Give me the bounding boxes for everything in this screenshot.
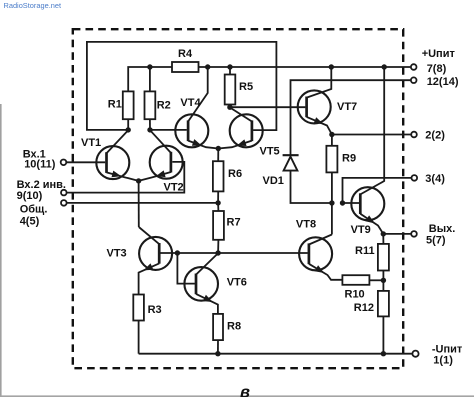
terminal 2(2) [411,132,417,138]
terminal Vkh.2 inv 9(10) [61,190,67,196]
transistor VT9 [351,187,384,220]
svg-text:VT8: VT8 [296,218,316,230]
diode VD1 [283,154,299,156]
watermark RadioStorage.net [4,1,62,10]
svg-text:+Uпит: +Uпит [422,48,456,60]
wire: R5/VT5 node to VT7 base [230,106,306,108]
transistor VT4 [175,114,208,147]
resistor R6 [217,149,219,162]
svg-text:R5: R5 [239,81,253,93]
wire: +U rail (left segment to R4) [128,67,172,91]
svg-text:R9: R9 [342,153,356,165]
svg-text:12(14): 12(14) [427,76,459,88]
svg-text:5(7): 5(7) [426,235,446,247]
wire: VT9 base from rail [343,202,360,204]
junction: VT4-VT5 emitters / R6 top [216,146,221,151]
svg-text:1(1): 1(1) [433,355,453,367]
svg-text:9(10): 9(10) [17,190,43,202]
wire: VT7 emitter to pin 2(2) [332,134,411,136]
junction: VT6 base tap [175,250,180,255]
wire: VT6 base drop from rail [177,253,195,284]
junction: R12 bottom / -U rail [381,351,386,356]
svg-text:Вых.: Вых. [429,223,456,235]
resistor R10 [342,275,369,285]
wire: bias loop from R1/R2 node around top to VT5 base [87,42,277,130]
svg-text:R3: R3 [148,304,162,316]
wire: VT4 collector to +U rail [188,67,208,122]
terminal -Upit 1(1) [412,351,418,357]
wire: pin 12(14) to VD1 cathode [291,80,411,155]
svg-text:R8: R8 [227,320,241,332]
resistor R3 [133,295,144,321]
transistor VT6 [184,267,218,301]
junction: R6/R7 / common input [215,200,220,205]
resistor R7 [217,203,219,211]
resistor R4 [172,62,199,72]
wire: VT3 base / VT6 / R7 / VT8 base rail [161,252,308,254]
svg-text:R6: R6 [228,168,242,180]
junction: R5 top / +U rail [227,64,232,69]
junction: R1 bottom / VT1 collector [126,127,131,132]
junction: pin 3 tap / VT9 base [340,200,345,205]
transistor VT1 [96,146,129,179]
terminal +Upit 7(8) [411,64,417,70]
terminal Vkh.1 10(11) [61,160,67,166]
resistor R5 [229,67,231,75]
svg-text:VT4: VT4 [180,97,201,109]
wire: VT9 collector to +U rail [360,67,384,194]
svg-text:в: в [240,384,250,397]
junction: VT7 emitter / R9 top / pin 2 [329,132,334,137]
wire: VT9 base to pin 3(4) [343,178,412,203]
wire: input 2 to VT2 base [67,162,185,193]
wire: VT1/VT2 emitters to VT3 collector [138,181,140,227]
svg-text:VD1: VD1 [263,175,284,187]
wire: -U bottom rail [139,353,413,355]
junction: R7 bottom / VT6 collector [215,250,220,255]
svg-text:2(2): 2(2) [425,130,445,142]
svg-text:VT3: VT3 [107,248,127,260]
junction: VT4 collector / +U rail [205,64,210,69]
junction: R2 bottom / VT2 collector / VT4 base [147,127,152,132]
resistor R8 [213,314,223,340]
svg-text:Общ.: Общ. [20,203,48,215]
svg-text:3(4): 3(4) [425,173,445,185]
svg-text:VT9: VT9 [351,224,371,236]
terminal 12(14) [411,77,417,83]
svg-text:VT5: VT5 [260,146,280,158]
wire: VT6 collector to R7 node [196,253,218,274]
svg-text:R10: R10 [345,288,365,300]
svg-text:10(11): 10(11) [24,158,56,170]
svg-text:VT1: VT1 [81,137,101,149]
transistor VT5 [230,114,263,147]
transistor VT3 [139,237,172,270]
transistor VT7 [298,90,331,123]
wire: common to R6/R7 node [67,202,218,204]
svg-text:VT2: VT2 [164,182,184,194]
resistor R11 [382,234,384,244]
dashed IC package boundary [73,29,403,368]
svg-text:R7: R7 [227,217,241,229]
svg-text:VT7: VT7 [337,101,357,113]
svg-text:R11: R11 [355,245,375,257]
wire: VT4 base to R2 node [150,129,187,131]
scan artifact bottom edge strip [0,395,474,397]
transistor VT8 [299,237,332,270]
junction: VT9 collector line / +U rail [382,64,387,69]
svg-text:4(5): 4(5) [20,215,40,227]
wire: input 1 to VT1 base [66,161,105,163]
svg-text:VT6: VT6 [227,277,247,289]
svg-text:R12: R12 [354,302,374,314]
terminal 3(4) [412,175,418,181]
terminal Obshch 4(5) [61,200,67,206]
wire: +U rail (R4 to pin 7(8)) [199,66,411,68]
resistor R12 [382,280,384,291]
junction: VD1 anode / R9 bottom / VT8 collector [329,200,334,205]
junction: R5 bottom / VT5 collector / VT7 base [227,105,232,110]
junction: R2 top / +U rail [147,64,152,69]
terminal Vykh 5(7) [411,231,417,237]
svg-text:7(8): 7(8) [427,63,447,75]
scan artifact left edge strip [0,104,2,397]
svg-text:R2: R2 [157,99,171,111]
resistor R2 [149,67,151,91]
resistor R9 [331,135,333,146]
junction: VT1-VT2 emitters / VT3 collector [136,178,141,183]
wire: R9 bottom / VT8 collector column [331,172,333,234]
wire: VT7 collector to +U rail [307,67,332,98]
junction: VT7 collector / +U rail [329,64,334,69]
junction: R8 bottom / -U rail [215,351,220,356]
junction: VT9 emitter / R11 top / output [381,231,386,236]
junction: R11/R10/R12 node [381,278,386,283]
svg-text:R1: R1 [108,99,122,111]
resistor R1 [123,91,134,119]
wire: VT9 emitter to pin 5(7) output [383,233,411,235]
svg-text:R4: R4 [178,48,193,60]
transistor VT2 [150,146,183,179]
